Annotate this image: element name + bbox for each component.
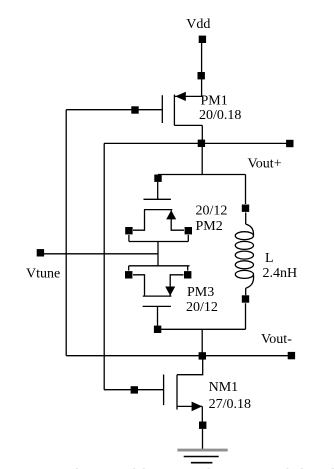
- transistor PM1 drain bar: [174, 124, 202, 126]
- wire inductor bottom lead: [245, 288, 247, 295]
- wire PM2 gate: [157, 182, 159, 199]
- wire PM3 left terminal: [133, 275, 145, 296]
- transistor NM1 source bar: [177, 405, 202, 407]
- wire NM1 gate line: [104, 389, 164, 391]
- wire inductor branch bottom: [245, 303, 247, 329]
- node inductor bottom square: [242, 295, 249, 302]
- node PM3 gate square: [154, 326, 161, 333]
- svg-text:PM3: PM3: [187, 285, 214, 300]
- inductor L coil loop 2: [235, 241, 253, 249]
- svg-text:27/0.18: 27/0.18: [209, 397, 251, 412]
- node Vout+ terminal square: [286, 140, 293, 147]
- wire cross-coupling PM1 gate to Vout- (far left vertical): [65, 110, 67, 356]
- node Vout- terminal square: [288, 352, 295, 359]
- wire NM1 source down: [201, 406, 203, 421]
- wire PM3 top rail: [129, 265, 190, 267]
- node NM1 gate square: [131, 386, 138, 393]
- wire inductor branch top: [245, 175, 247, 205]
- svg-text:2.4nH: 2.4nH: [263, 266, 298, 281]
- varactor PM3 channel plate: [143, 295, 172, 297]
- wire PM3 gate: [157, 306, 159, 325]
- wire Vout+ down to tank rail: [201, 143, 203, 174]
- inductor L coil entry curve: [246, 224, 254, 236]
- wire Vdd down to junction: [201, 42, 203, 73]
- wire Vout- horizontal: [66, 355, 291, 357]
- svg-text:PM2: PM2: [196, 219, 223, 234]
- node PM3 right square: [184, 271, 191, 278]
- node inductor top square: [242, 205, 249, 212]
- svg-text:NM1: NM1: [209, 380, 239, 395]
- node Vtune terminal square: [37, 249, 44, 256]
- node junction square on Vdd wire: [198, 72, 205, 79]
- node Vout- junction square: [199, 352, 206, 359]
- node PM2 gate square: [154, 175, 161, 182]
- svg-text:20/12: 20/12: [186, 300, 218, 315]
- varactor PM2 bulk arrow up: [166, 210, 176, 219]
- transistor NM1 source arrow: [192, 402, 203, 412]
- wire PM3 right square stub: [187, 266, 189, 271]
- wire PM2 right square down: [187, 235, 189, 242]
- wire PM1 gate line: [66, 109, 162, 111]
- node PM3 left square: [125, 271, 132, 278]
- inductor L coil loop 5: [235, 270, 253, 278]
- node PM2 left square: [125, 227, 132, 234]
- inductor L coil exit curve: [246, 274, 254, 288]
- wire junction down to PM1 source: [201, 78, 203, 96]
- wire rail tap down to Vout-: [201, 329, 203, 355]
- inductor L coil loop 3: [235, 251, 253, 259]
- transistor PM1 channel line: [173, 95, 175, 126]
- wire inductor top lead: [245, 212, 247, 224]
- svg-text:L: L: [265, 251, 274, 266]
- wire cross-coupling Vout+ to NM1 gate (left vertical): [103, 143, 105, 389]
- ground bottom bar: [191, 462, 213, 464]
- wire PM2 right terminal: [171, 210, 184, 230]
- wire PM1 drain down: [201, 125, 203, 143]
- ground middle bar: [184, 456, 219, 458]
- svg-text:Vout+: Vout+: [248, 157, 282, 172]
- inductor L coil loop 1: [235, 232, 253, 240]
- svg-text:20/0.18: 20/0.18: [199, 108, 241, 123]
- inductor L coil loop 4: [235, 261, 253, 269]
- svg-text:Vtune: Vtune: [26, 267, 60, 282]
- varactor PM3 gate plate: [143, 305, 171, 307]
- svg-text:20/12: 20/12: [196, 204, 228, 219]
- wire PM3 right terminal: [170, 275, 183, 296]
- wire Vout+ horizontal: [104, 142, 290, 144]
- node Vdd terminal square: [199, 36, 206, 43]
- wire top tank rail: [158, 174, 246, 176]
- transistor NM1 channel line: [176, 375, 178, 410]
- transistor PM1 gate plate: [161, 95, 163, 123]
- node NM1 source square: [199, 422, 206, 429]
- wire PM2 left terminal: [133, 210, 145, 230]
- wire PM3 left square stub: [128, 266, 130, 271]
- varactor PM2 gate plate: [144, 198, 171, 200]
- wire to ground: [202, 429, 204, 450]
- wire NM1 drain: [177, 356, 203, 375]
- transistor NM1 gate plate: [163, 375, 165, 406]
- varactor PM2 channel plate: [144, 209, 172, 211]
- wire PM2 bottom rail: [129, 241, 188, 243]
- wire Vtune horizontal: [43, 253, 158, 255]
- svg-text:PM1: PM1: [201, 94, 228, 109]
- varactor PM3 bulk arrow down: [165, 287, 175, 296]
- wire PM2 left square down: [128, 235, 130, 242]
- node Vout+ junction square: [198, 140, 205, 147]
- transistor PM1 source bar: [174, 95, 202, 97]
- node PM1 gate square: [131, 106, 138, 113]
- svg-text:Vdd: Vdd: [186, 17, 210, 32]
- node PM2 right square: [185, 227, 192, 234]
- wire varactor center tap: [157, 242, 159, 266]
- wire bottom tank rail: [158, 328, 246, 330]
- ground top bar: [177, 449, 227, 452]
- svg-text:Vout-: Vout-: [261, 332, 292, 347]
- transistor PM1 source arrow: [175, 92, 186, 101]
